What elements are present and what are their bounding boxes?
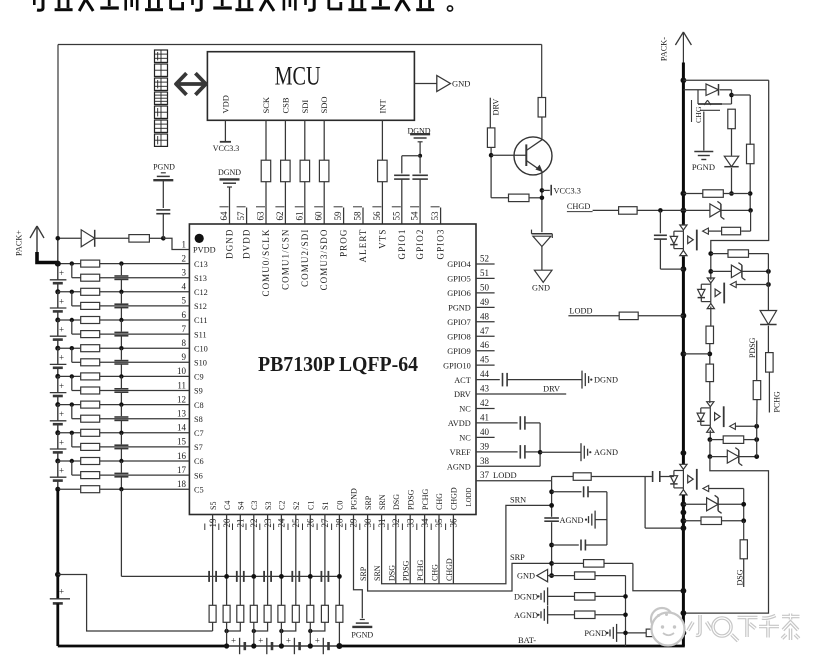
svg-text:PGND: PGND bbox=[584, 629, 607, 638]
svg-text:PGND: PGND bbox=[692, 162, 715, 172]
svg-text:S5: S5 bbox=[209, 502, 218, 510]
svg-text:DRV: DRV bbox=[491, 99, 500, 116]
svg-text:50: 50 bbox=[480, 282, 490, 292]
svg-text:5: 5 bbox=[182, 296, 187, 306]
svg-text:DRV: DRV bbox=[543, 385, 560, 394]
svg-text:DGND: DGND bbox=[514, 592, 538, 601]
svg-text:SDI: SDI bbox=[300, 100, 310, 114]
svg-text:CHG: CHG bbox=[431, 564, 440, 581]
svg-text:SRP: SRP bbox=[359, 566, 368, 581]
svg-text:43: 43 bbox=[480, 384, 490, 394]
svg-text:61: 61 bbox=[294, 212, 304, 221]
svg-text:40: 40 bbox=[480, 427, 490, 437]
svg-text:C5: C5 bbox=[194, 485, 204, 494]
svg-text:GPIO10: GPIO10 bbox=[443, 361, 471, 370]
svg-text:C13: C13 bbox=[194, 260, 208, 269]
svg-text:CHG: CHG bbox=[435, 493, 444, 510]
svg-text:DRV: DRV bbox=[454, 390, 471, 399]
svg-text:S3: S3 bbox=[264, 502, 273, 510]
svg-text:CHGD: CHGD bbox=[450, 487, 459, 510]
svg-text:+: + bbox=[59, 587, 64, 597]
svg-text:MCU: MCU bbox=[275, 62, 321, 91]
svg-text:52: 52 bbox=[480, 254, 489, 264]
svg-text:C2: C2 bbox=[278, 501, 287, 510]
svg-text:AGND: AGND bbox=[514, 611, 538, 620]
svg-text:44: 44 bbox=[480, 369, 490, 379]
svg-text:GND: GND bbox=[532, 284, 550, 293]
svg-text:AVDD: AVDD bbox=[448, 419, 471, 428]
svg-text:CSB: CSB bbox=[280, 97, 290, 113]
svg-text:AGND: AGND bbox=[594, 448, 618, 457]
svg-text:PDSG: PDSG bbox=[748, 337, 757, 358]
svg-text:10: 10 bbox=[177, 366, 187, 376]
svg-text:GPIO6: GPIO6 bbox=[447, 289, 471, 298]
svg-text:DVDD: DVDD bbox=[242, 229, 252, 259]
svg-text:2: 2 bbox=[182, 253, 187, 263]
svg-text:+: + bbox=[59, 409, 64, 419]
svg-text:17: 17 bbox=[177, 465, 187, 475]
svg-text:41: 41 bbox=[480, 412, 489, 422]
svg-text:VDD: VDD bbox=[220, 95, 230, 113]
svg-text:S4: S4 bbox=[237, 502, 246, 510]
svg-text:C10: C10 bbox=[194, 344, 208, 353]
svg-text:GND: GND bbox=[517, 572, 535, 581]
svg-text:3: 3 bbox=[182, 268, 187, 278]
svg-text:DSG: DSG bbox=[392, 494, 401, 510]
svg-text:53: 53 bbox=[430, 211, 440, 221]
svg-text:S6: S6 bbox=[194, 471, 203, 480]
svg-text:63: 63 bbox=[256, 211, 266, 221]
svg-text:PGND: PGND bbox=[448, 304, 471, 313]
svg-text:NC: NC bbox=[459, 434, 471, 443]
svg-text:C7: C7 bbox=[194, 429, 204, 438]
svg-text:SRP: SRP bbox=[510, 553, 525, 562]
svg-text:GPIO9: GPIO9 bbox=[447, 347, 471, 356]
svg-text:+: + bbox=[315, 636, 320, 646]
svg-text:C8: C8 bbox=[194, 401, 204, 410]
svg-text:LODD: LODD bbox=[466, 487, 473, 506]
svg-text:8: 8 bbox=[182, 338, 187, 348]
svg-text:7: 7 bbox=[182, 324, 187, 334]
svg-text:GPIO8: GPIO8 bbox=[447, 332, 471, 341]
svg-text:+: + bbox=[231, 636, 236, 646]
svg-text:9: 9 bbox=[182, 352, 187, 362]
svg-text:S1: S1 bbox=[321, 502, 330, 510]
svg-text:37: 37 bbox=[480, 470, 490, 480]
svg-text:49: 49 bbox=[480, 297, 490, 307]
svg-text:VREF: VREF bbox=[450, 448, 472, 457]
svg-text:PDSG: PDSG bbox=[402, 560, 411, 581]
svg-text:47: 47 bbox=[480, 326, 490, 336]
svg-text:COMU2/SDI: COMU2/SDI bbox=[300, 229, 310, 287]
svg-text:DSG: DSG bbox=[387, 565, 396, 581]
svg-text:18: 18 bbox=[177, 479, 187, 489]
svg-text:COMU0/SCLK: COMU0/SCLK bbox=[261, 229, 271, 297]
svg-text:SRN: SRN bbox=[378, 494, 387, 510]
svg-text:CHGD: CHGD bbox=[445, 558, 454, 581]
svg-text:DGND: DGND bbox=[225, 229, 235, 259]
svg-text:VCC3.3: VCC3.3 bbox=[213, 144, 239, 153]
svg-text:LODD: LODD bbox=[493, 470, 517, 480]
svg-text:+: + bbox=[59, 437, 64, 447]
svg-text:PGND: PGND bbox=[153, 163, 175, 172]
svg-text:+: + bbox=[286, 636, 291, 646]
svg-text:C11: C11 bbox=[194, 316, 208, 325]
svg-text:S11: S11 bbox=[194, 330, 207, 339]
svg-text:39: 39 bbox=[480, 441, 490, 451]
svg-text:S12: S12 bbox=[194, 302, 207, 311]
svg-text:VTS: VTS bbox=[377, 229, 387, 249]
svg-text:C6: C6 bbox=[194, 457, 204, 466]
svg-text:PCHG: PCHG bbox=[421, 488, 430, 510]
svg-text:62: 62 bbox=[275, 212, 285, 221]
svg-text:BAT-: BAT- bbox=[518, 635, 536, 645]
svg-text:59: 59 bbox=[333, 211, 343, 221]
svg-text:13: 13 bbox=[177, 409, 187, 419]
svg-text:+: + bbox=[59, 353, 64, 363]
svg-text:46: 46 bbox=[480, 340, 490, 350]
svg-text:CHG: CHG bbox=[694, 106, 703, 123]
svg-text:C4: C4 bbox=[223, 501, 232, 510]
svg-text:SCK: SCK bbox=[261, 96, 271, 113]
svg-text:14: 14 bbox=[177, 423, 187, 433]
svg-text:PDSG: PDSG bbox=[406, 489, 415, 510]
svg-text:COMU1/CSN: COMU1/CSN bbox=[280, 229, 290, 290]
svg-text:S8: S8 bbox=[194, 415, 203, 424]
svg-text:INT: INT bbox=[377, 99, 387, 114]
svg-text:+: + bbox=[258, 636, 263, 646]
svg-text:PROG: PROG bbox=[339, 229, 349, 257]
svg-text:+: + bbox=[59, 325, 64, 335]
svg-text:38: 38 bbox=[480, 456, 490, 466]
svg-text:GPIO2: GPIO2 bbox=[415, 229, 425, 260]
svg-text:GPIO4: GPIO4 bbox=[447, 260, 471, 269]
svg-text:C3: C3 bbox=[250, 501, 259, 510]
svg-text:GND: GND bbox=[452, 79, 470, 89]
svg-text:15: 15 bbox=[177, 437, 187, 447]
svg-text:DSG: DSG bbox=[735, 569, 744, 585]
svg-text:S9: S9 bbox=[194, 387, 203, 396]
svg-text:PVDD: PVDD bbox=[193, 246, 216, 255]
svg-text:57: 57 bbox=[236, 211, 246, 221]
svg-text:55: 55 bbox=[391, 211, 401, 221]
svg-text:C1: C1 bbox=[307, 501, 316, 510]
svg-text:ALERT: ALERT bbox=[358, 229, 368, 263]
svg-text:64: 64 bbox=[219, 211, 229, 221]
svg-text:45: 45 bbox=[480, 355, 490, 365]
svg-text:16: 16 bbox=[177, 451, 187, 461]
svg-text:54: 54 bbox=[410, 211, 420, 221]
svg-text:51: 51 bbox=[480, 268, 489, 278]
svg-text:48: 48 bbox=[480, 311, 490, 321]
svg-text:+: + bbox=[59, 268, 64, 278]
svg-text:PACK+: PACK+ bbox=[15, 230, 24, 256]
svg-text:S7: S7 bbox=[194, 443, 203, 452]
svg-text:PB7130P LQFP-64: PB7130P LQFP-64 bbox=[258, 352, 418, 376]
svg-text:GPIO1: GPIO1 bbox=[397, 229, 407, 260]
svg-text:GPIO5: GPIO5 bbox=[447, 275, 471, 284]
svg-text:DGND: DGND bbox=[594, 376, 618, 385]
svg-text:SRN: SRN bbox=[510, 496, 526, 505]
svg-text:COMU3/SDO: COMU3/SDO bbox=[319, 229, 329, 291]
svg-text:11: 11 bbox=[177, 380, 186, 390]
svg-text:+: + bbox=[59, 466, 64, 476]
svg-text:SDO: SDO bbox=[319, 96, 329, 113]
svg-text:58: 58 bbox=[353, 211, 363, 221]
svg-text:GPIO3: GPIO3 bbox=[436, 229, 446, 260]
svg-text:GPIO7: GPIO7 bbox=[447, 318, 471, 327]
svg-text:LODD: LODD bbox=[569, 307, 592, 316]
svg-text:56: 56 bbox=[372, 211, 382, 221]
svg-text:AGND: AGND bbox=[560, 516, 584, 525]
svg-text:PCHG: PCHG bbox=[416, 559, 425, 581]
svg-text:CHGD: CHGD bbox=[567, 202, 591, 211]
svg-text:12: 12 bbox=[177, 394, 186, 404]
svg-text:S13: S13 bbox=[194, 274, 207, 283]
svg-text:C0: C0 bbox=[336, 501, 345, 510]
svg-text:C9: C9 bbox=[194, 373, 204, 382]
svg-text:PCHG: PCHG bbox=[773, 391, 782, 413]
svg-text:PGND: PGND bbox=[350, 488, 359, 510]
svg-text:AGND: AGND bbox=[447, 463, 471, 472]
svg-text:1: 1 bbox=[182, 239, 187, 249]
svg-text:6: 6 bbox=[182, 310, 187, 320]
svg-text:4: 4 bbox=[182, 282, 187, 292]
svg-text:S10: S10 bbox=[194, 359, 207, 368]
svg-text:ACT: ACT bbox=[454, 376, 471, 385]
svg-text:PGND: PGND bbox=[351, 631, 373, 640]
svg-text:42: 42 bbox=[480, 398, 489, 408]
svg-text:S2: S2 bbox=[292, 502, 301, 510]
svg-text:PACK-: PACK- bbox=[660, 37, 669, 61]
svg-text:60: 60 bbox=[314, 211, 324, 221]
svg-text:C12: C12 bbox=[194, 288, 208, 297]
svg-text:+: + bbox=[59, 296, 64, 306]
svg-text:+: + bbox=[59, 381, 64, 391]
svg-text:DGND: DGND bbox=[218, 168, 241, 177]
svg-text:SRN: SRN bbox=[373, 565, 382, 581]
svg-text:SRP: SRP bbox=[364, 495, 373, 510]
svg-text:NC: NC bbox=[459, 405, 471, 414]
svg-text:VCC3.3: VCC3.3 bbox=[554, 187, 581, 196]
